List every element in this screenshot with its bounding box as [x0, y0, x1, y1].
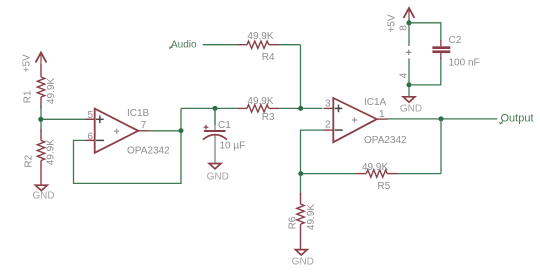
svg-text:8: 8 [398, 25, 409, 31]
power +5V supply (right) [404, 8, 415, 20]
value 49.9K of R5 [362, 162, 388, 173]
resistor R4 [237, 41, 279, 48]
value 10 uF of C1 [220, 141, 246, 152]
svg-text:49.9K: 49.9K [46, 78, 57, 104]
svg-text:+5V: +5V [22, 54, 33, 72]
wire R3 to pin 3 [279, 107, 323, 109]
net label Audio [169, 39, 197, 50]
svg-text:6: 6 [87, 132, 93, 143]
wire C2 bottom to power [409, 58, 441, 85]
value OPA2342 of IC1B [127, 146, 170, 157]
wire node to C1 [214, 108, 216, 125]
value 49.9K of R6 [306, 204, 317, 230]
svg-text:100 nF: 100 nF [449, 58, 480, 69]
pin 1 label [379, 109, 385, 120]
capacitor C1 [203, 108, 227, 163]
svg-text:R2: R2 [23, 154, 34, 167]
label IC1B [127, 108, 150, 119]
label R1 [23, 90, 34, 103]
svg-text:49.9K: 49.9K [46, 139, 57, 165]
junction power bottom [407, 82, 412, 87]
wire up to R3/C1 net [181, 108, 238, 130]
wire IC1A output to Output [388, 118, 498, 120]
svg-text:49.9K: 49.9K [306, 204, 317, 230]
label +5V (right) [387, 14, 398, 32]
label IC1A [364, 97, 387, 108]
svg-text:R3: R3 [262, 112, 275, 123]
ground under R6 [295, 250, 307, 255]
svg-text:+5V: +5V [387, 14, 398, 32]
op-amp IC1A [324, 98, 388, 142]
value 100 nF of C2 [449, 58, 480, 69]
svg-text:Output: Output [501, 113, 534, 125]
wire R4 to pin 3 node [279, 45, 301, 109]
value OPA2342 of IC1A [364, 135, 407, 146]
label C1 [218, 120, 231, 131]
label C2 [449, 35, 462, 46]
wire power to C2 top [409, 23, 441, 41]
resistor R2 [37, 130, 44, 186]
svg-text:GND: GND [292, 256, 314, 267]
power gate + marker [406, 50, 411, 55]
svg-text:49.9K: 49.9K [247, 31, 273, 42]
svg-text:49.9K: 49.9K [247, 96, 273, 107]
svg-text:IC1A: IC1A [364, 97, 387, 108]
junction IC1B output [179, 128, 184, 133]
pin 6 label [87, 132, 93, 143]
svg-text:R6: R6 [287, 216, 298, 229]
ground under R2 [35, 185, 47, 190]
wire node to R5 [301, 173, 357, 175]
svg-text:4: 4 [398, 72, 409, 78]
value 49.9K of R1 [46, 78, 57, 104]
wire Audio to R4 [203, 44, 237, 46]
junction R5/R6/pin2 [298, 171, 303, 176]
value 49.9K of R4 [247, 31, 273, 42]
svg-text:R1: R1 [23, 90, 34, 103]
svg-text:Audio: Audio [171, 39, 197, 50]
junction R3/R4/pin3 [298, 106, 303, 111]
op-amp IC1B [85, 109, 149, 153]
label R2 [23, 154, 34, 167]
net label Output [499, 113, 533, 125]
ground under C1 [209, 164, 221, 169]
pin 3 label [325, 99, 331, 110]
pin 7 label [141, 120, 147, 131]
junction C1 tap [213, 106, 218, 111]
svg-text:GND: GND [207, 171, 229, 182]
svg-text:7: 7 [141, 120, 147, 131]
svg-text:2: 2 [325, 120, 331, 131]
label R6 [287, 216, 298, 229]
label +5V (left) [22, 54, 33, 72]
capacitor C2 [432, 40, 450, 59]
svg-text:OPA2342: OPA2342 [364, 135, 407, 146]
wire node to R6 [300, 174, 302, 195]
label R4 [262, 52, 275, 63]
svg-text:10 µF: 10 µF [220, 141, 246, 152]
svg-text:1: 1 [379, 109, 385, 120]
junction power top [407, 20, 412, 25]
label GND under R2 [32, 191, 54, 202]
pin 2 label [325, 120, 331, 131]
pin 5 label [87, 110, 93, 121]
resistor R1 [37, 64, 44, 109]
svg-text:IC1B: IC1B [127, 108, 150, 119]
svg-text:3: 3 [325, 99, 331, 110]
wire pin 2 to R5/R6 node [301, 130, 324, 174]
value 49.9K of R3 [247, 96, 273, 107]
value 49.9K of R2 [46, 139, 57, 165]
pin 4 label [398, 72, 409, 78]
svg-text:C1: C1 [218, 120, 231, 131]
svg-text:R4: R4 [262, 52, 275, 63]
label GND under C1 [207, 171, 229, 182]
junction R1/R2/pin5 [38, 117, 43, 122]
label GND under power pins [400, 104, 422, 115]
svg-text:49.9K: 49.9K [362, 162, 388, 173]
resistor R5 [356, 170, 398, 177]
wire R5 to output vertical [398, 173, 442, 175]
wire output node down to R5 [440, 119, 442, 174]
svg-text:R5: R5 [377, 181, 390, 192]
svg-text:C2: C2 [449, 35, 462, 46]
IC1 power pin wires [408, 18, 410, 97]
resistor R3 [238, 105, 279, 112]
pin 8 label [398, 25, 409, 31]
wire node to pin 5 [41, 105, 95, 132]
label GND under R6 [292, 256, 314, 267]
wire IC1B output [149, 130, 181, 132]
svg-text:GND: GND [32, 191, 54, 202]
label R3 [262, 112, 275, 123]
feedback wire output to pin 6 [74, 131, 182, 184]
junction output node [439, 116, 444, 121]
svg-text:5: 5 [87, 110, 93, 121]
ground under power pins [403, 97, 415, 102]
svg-text:OPA2342: OPA2342 [127, 146, 170, 157]
svg-text:GND: GND [400, 104, 422, 115]
label R5 [377, 181, 390, 192]
power +5V supply (left) [36, 52, 47, 64]
resistor R6 [297, 193, 304, 250]
